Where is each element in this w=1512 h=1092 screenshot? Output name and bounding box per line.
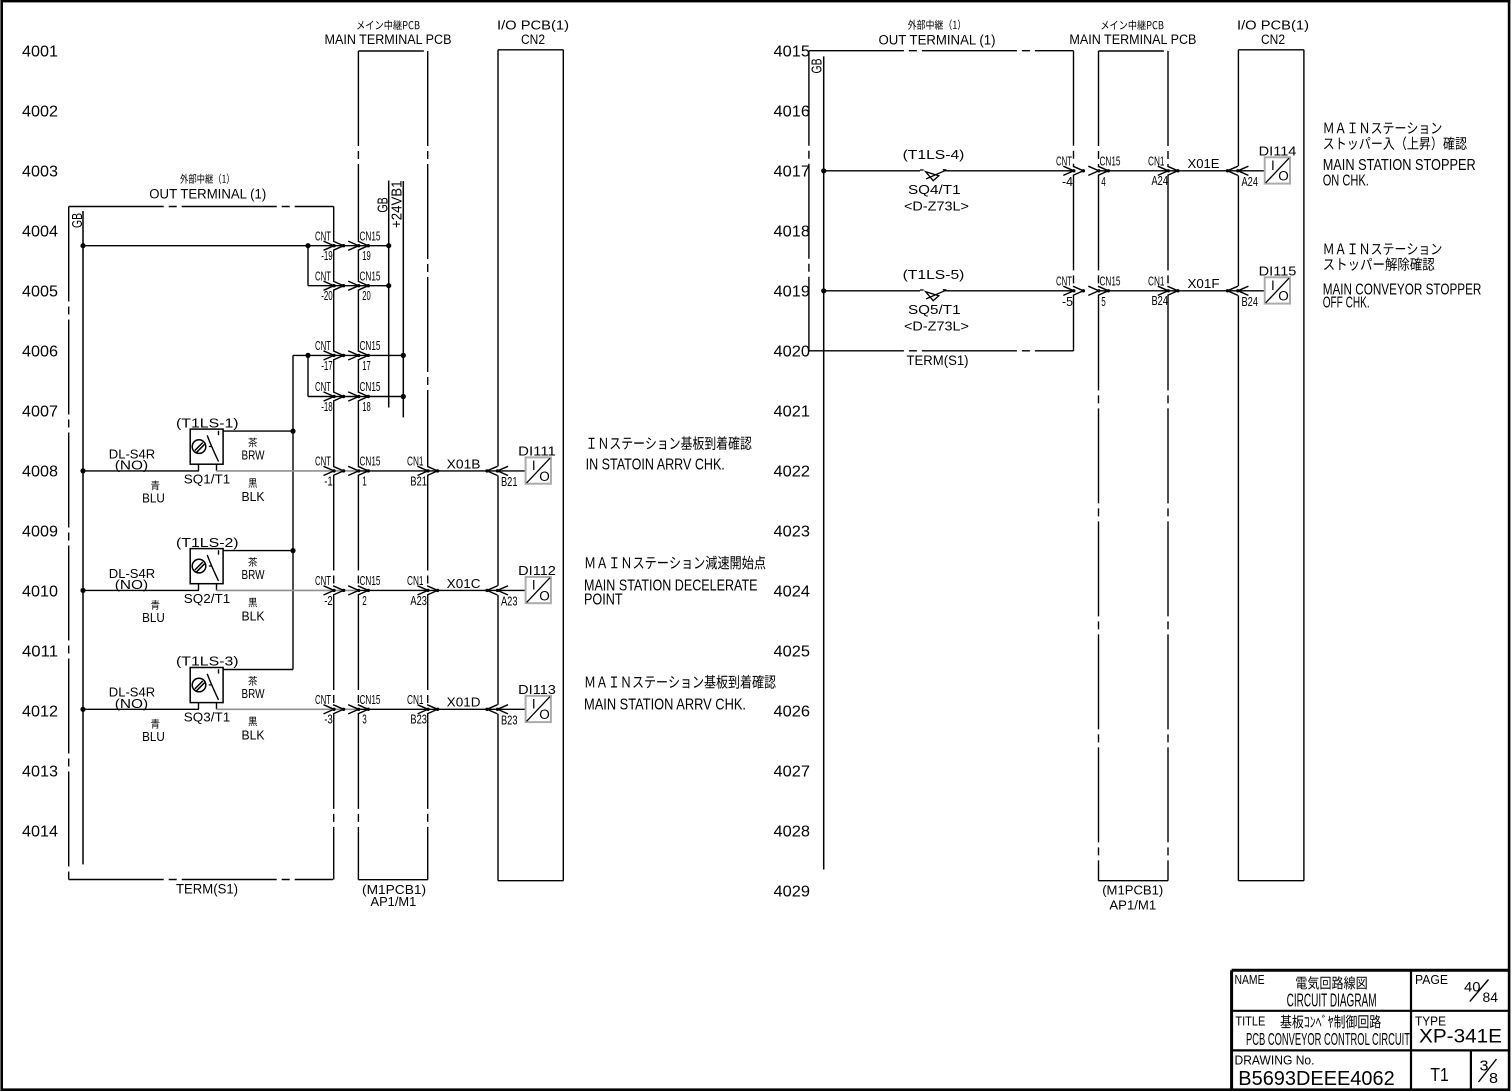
svg-text:DI112: DI112 [518, 563, 556, 578]
wire color label 青 BLU [142, 719, 165, 744]
svg-text:PAGE: PAGE [1415, 973, 1448, 987]
wire X01F CN1 to I/O PCB [1168, 276, 1238, 291]
connector CN15 18 [348, 380, 380, 414]
svg-text:-18: -18 [321, 400, 333, 414]
svg-text:(T1LS-3): (T1LS-3) [176, 654, 239, 669]
limit switch SQ5/T1 (T1LS-5) D-Z73L [903, 267, 969, 333]
svg-text:4: 4 [1101, 175, 1106, 189]
wire color label 茶 BRW [242, 438, 266, 463]
connector I/O PCB CN2 A23 [485, 586, 517, 609]
svg-text:CN15: CN15 [360, 380, 381, 394]
title block PAGE cell 40/84 [1415, 973, 1498, 1005]
wire CN15 2 to CN1 A23 [358, 589, 427, 591]
wire color label 黒 BLK [242, 598, 265, 624]
GB bus (right vertical) [809, 56, 826, 869]
wire CN15-20 (GB) [308, 283, 391, 288]
wire I/O PCB edge to DI115 [1238, 290, 1264, 292]
wire GB bus to switch SQ3/T1 (BLU side) [80, 707, 199, 712]
(M1PCB1) AP1/M1 label (right) [1102, 883, 1163, 913]
connector I/O PCB CN2 B24 [1226, 286, 1258, 309]
svg-text:CN2: CN2 [1261, 32, 1285, 47]
wire I/O PCB edge to DI112 [498, 589, 526, 591]
wire color label 青 BLU [142, 600, 165, 625]
svg-text:CN1: CN1 [1148, 275, 1165, 289]
svg-text:SQ1/T1: SQ1/T1 [184, 471, 230, 486]
connector I/O PCB CN2 B23 [485, 705, 517, 728]
svg-text:BLU: BLU [142, 490, 165, 505]
svg-text:<D-Z73L>: <D-Z73L> [904, 199, 969, 214]
svg-text:-3: -3 [324, 713, 333, 727]
svg-text:X01F: X01F [1188, 276, 1220, 291]
svg-text:T1: T1 [1430, 1065, 1448, 1085]
svg-text:4008: 4008 [22, 464, 58, 481]
connector CNT -18 [315, 380, 345, 414]
wire bracket CNT-19 to CNT-20 [307, 246, 309, 286]
OUT TERMINAL (1) box (left, dash-dot) [69, 207, 334, 880]
connector CN15 17 [348, 339, 380, 373]
svg-text:4019: 4019 [774, 284, 811, 301]
svg-text:CN15: CN15 [360, 455, 381, 469]
svg-text:(M1PCB1): (M1PCB1) [1102, 883, 1163, 898]
svg-text:4004: 4004 [22, 224, 58, 241]
svg-text:4005: 4005 [22, 284, 58, 301]
svg-text:4012: 4012 [22, 704, 58, 721]
wire X01E CN1 to I/O PCB [1168, 156, 1238, 171]
svg-text:4009: 4009 [22, 524, 58, 541]
wire CN15 1 to CN1 B21 [358, 470, 427, 472]
svg-text:4021: 4021 [774, 404, 811, 421]
title block sheet cell T1 3/8 [1430, 1059, 1498, 1087]
MAIN TERMINAL PCB header (right) [1069, 20, 1196, 47]
connector CNT -2 [315, 574, 345, 608]
svg-text:CNT: CNT [1056, 275, 1072, 289]
svg-text:A24: A24 [1242, 175, 1259, 189]
svg-text:18: 18 [362, 400, 371, 414]
connector CNT -1 [315, 455, 345, 489]
svg-text:AP1/M1: AP1/M1 [371, 894, 417, 909]
+24VB1 bus (x=403.3) [389, 181, 406, 418]
svg-text:BLK: BLK [242, 489, 265, 504]
I/O input module DI115 [1259, 263, 1297, 303]
svg-text:4015: 4015 [774, 44, 811, 61]
I/O input module DI114 [1259, 143, 1297, 183]
svg-text:B21: B21 [501, 475, 518, 489]
connector CN15 2 [348, 574, 380, 608]
svg-text:4010: 4010 [22, 584, 58, 601]
svg-text:17: 17 [362, 359, 371, 373]
svg-text:CNT: CNT [315, 339, 331, 353]
svg-text:A24: A24 [1152, 174, 1169, 188]
svg-text:(NO): (NO) [115, 696, 148, 711]
svg-text:4011: 4011 [22, 644, 58, 661]
connector CN1 A24 [1148, 155, 1180, 189]
svg-text:AP1/M1: AP1/M1 [1109, 898, 1156, 913]
svg-text:4016: 4016 [774, 104, 811, 121]
wire X01D CN1 to I/O PCB [428, 695, 498, 710]
svg-text:A23: A23 [410, 594, 427, 608]
svg-text:+24VB1: +24VB1 [389, 181, 406, 229]
wire color label 茶 BRW [242, 676, 266, 701]
svg-text:DI111: DI111 [518, 443, 556, 458]
I/O input module DI112 [518, 563, 556, 603]
svg-text:4018: 4018 [774, 224, 811, 241]
svg-text:CN1: CN1 [407, 574, 424, 588]
svg-text:-4: -4 [1062, 175, 1073, 189]
svg-text:CN1: CN1 [407, 455, 424, 469]
svg-text:X01D: X01D [447, 695, 481, 710]
svg-text:3: 3 [362, 713, 367, 727]
connector CNT -20 [315, 269, 345, 303]
svg-text:4020: 4020 [774, 344, 811, 361]
svg-text:DRAWING No.: DRAWING No. [1235, 1053, 1315, 1068]
connector CN1 B23 [407, 693, 439, 727]
svg-text:CNT: CNT [1056, 155, 1072, 169]
svg-text:8: 8 [1489, 1071, 1498, 1087]
svg-text:NAME: NAME [1235, 973, 1265, 987]
svg-text:SQ5/T1: SQ5/T1 [908, 302, 961, 317]
svg-text:GB: GB [69, 213, 86, 228]
OUT TERMINAL (1) box header (left) [149, 174, 266, 202]
svg-text:CN2: CN2 [521, 32, 545, 47]
svg-text:19: 19 [362, 249, 371, 263]
svg-text:TITLE: TITLE [1235, 1014, 1265, 1028]
wire color label 茶 BRW [242, 557, 266, 582]
svg-text:4027: 4027 [774, 764, 811, 781]
wire I/O PCB edge to DI111 [498, 470, 526, 472]
annotation for DI115 [1323, 243, 1482, 312]
wire switch SQ3/T1 upper contact to +24VB1 feed [223, 669, 293, 671]
connector CN15 1 [348, 455, 380, 489]
svg-text:4029: 4029 [774, 884, 811, 901]
svg-text:4013: 4013 [22, 764, 58, 781]
svg-text:CNT: CNT [315, 380, 331, 394]
I/O input module DI111 [518, 443, 556, 483]
svg-text:CNT: CNT [315, 693, 331, 707]
svg-text:X01C: X01C [447, 576, 481, 591]
connector CN1 B21 [407, 455, 439, 489]
I/O PCB CN2 header (right) [1237, 17, 1309, 47]
svg-text:GB: GB [809, 59, 826, 74]
svg-text:OFF CHK.: OFF CHK. [1323, 295, 1370, 312]
wire CN15 4 to CN1 A24 [1099, 170, 1169, 172]
limit switch SQ4/T1 (T1LS-4) D-Z73L [903, 147, 969, 213]
MAIN TERMINAL PCB box (right) [1099, 51, 1169, 881]
annotation for DI112 [584, 556, 765, 609]
svg-text:CNT: CNT [315, 574, 331, 588]
svg-text:(T1LS-4): (T1LS-4) [903, 147, 965, 162]
svg-text:4026: 4026 [774, 704, 811, 721]
svg-text:CN15: CN15 [360, 229, 381, 243]
svg-text:CN1: CN1 [1148, 155, 1165, 169]
wire GB bus to limit switch SQ5/T1 [821, 288, 920, 293]
connector CN1 A23 [407, 574, 439, 608]
svg-text:4003: 4003 [22, 164, 58, 181]
wire X01C CN1 to I/O PCB [428, 576, 498, 591]
annotation for DI111 [586, 436, 752, 473]
svg-text:BRW: BRW [242, 448, 266, 463]
wire color label 青 BLU [142, 481, 165, 506]
svg-text:20: 20 [362, 289, 371, 303]
svg-text:B5693DEEE4062: B5693DEEE4062 [1238, 1067, 1394, 1090]
svg-text:TERM(S1): TERM(S1) [907, 353, 969, 368]
svg-text:(NO): (NO) [115, 457, 148, 472]
wire switch SQ5/T1 to CNT -5 [944, 290, 1074, 292]
svg-text:MAIN TERMINAL PCB: MAIN TERMINAL PCB [325, 32, 452, 47]
I/O PCB CN2 header (left) [497, 17, 569, 47]
svg-text:B24: B24 [1152, 294, 1169, 308]
wire I/O PCB edge to DI114 [1238, 170, 1264, 172]
svg-text:X01E: X01E [1188, 156, 1220, 171]
svg-text:SQ2/T1: SQ2/T1 [184, 591, 230, 606]
OUT TERMINAL (1) box header (right) [879, 20, 996, 48]
svg-text:BLU: BLU [142, 610, 165, 625]
wire CN15 3 to CN1 B23 [358, 708, 427, 710]
svg-text:IN STATOIN ARRV CHK.: IN STATOIN ARRV CHK. [586, 457, 725, 474]
svg-text:BLK: BLK [242, 728, 265, 743]
annotation for DI114 [1323, 122, 1476, 189]
svg-text:CN15: CN15 [360, 574, 381, 588]
limit switch SQ2/T1 (T1LS-2) DL-S4R [109, 535, 239, 606]
svg-text:I/O PCB(1): I/O PCB(1) [497, 17, 569, 32]
connector I/O PCB CN2 A24 [1226, 166, 1258, 189]
wire CN15-18 (+24VB1) [308, 394, 406, 399]
svg-text:ON CHK.: ON CHK. [1323, 173, 1369, 190]
connector CNT -19 [315, 229, 345, 263]
svg-text:4014: 4014 [22, 824, 58, 841]
connector CN15 3 [348, 693, 380, 727]
wire switch SQ2/T1 output (BLK, gray) to CN15 [217, 589, 359, 591]
wire color label 黒 BLK [242, 717, 265, 743]
wire CN15-19 (GB) row 4004 [80, 243, 391, 248]
svg-text:1: 1 [362, 474, 367, 488]
svg-text:MAIN STATION ARRV CHK.: MAIN STATION ARRV CHK. [584, 697, 746, 714]
wire switch SQ3/T1 output (BLK, gray) to CN15 [217, 708, 359, 710]
title block frame [1232, 970, 1510, 1090]
wire +24VB1 feed to limit switches (vertical x=293) [290, 355, 295, 669]
(M1PCB1) AP1/M1 label (left) [362, 882, 426, 909]
svg-text:BLK: BLK [242, 609, 265, 624]
svg-text:4017: 4017 [774, 164, 811, 181]
svg-text:OUT TERMINAL (1): OUT TERMINAL (1) [149, 187, 266, 202]
wire GB bus to limit switch SQ4/T1 [821, 168, 920, 173]
svg-text:BRW: BRW [242, 567, 266, 582]
svg-text:84: 84 [1483, 989, 1499, 1005]
svg-text:CN15: CN15 [360, 339, 381, 353]
wire I/O PCB edge to DI113 [498, 708, 526, 710]
svg-text:SQ4/T1: SQ4/T1 [908, 182, 961, 197]
MAIN TERMINAL PCB header (left) [325, 20, 452, 47]
svg-text:4002: 4002 [22, 104, 58, 121]
GB bus (left vertical) [69, 211, 86, 864]
svg-text:<D-Z73L>: <D-Z73L> [904, 319, 969, 334]
wire switch SQ4/T1 to CNT -4 [944, 170, 1074, 172]
svg-text:DI115: DI115 [1259, 263, 1297, 278]
svg-text:-2: -2 [324, 594, 333, 608]
title block TYPE cell XP-341E [1415, 1014, 1502, 1047]
connector I/O PCB CN2 B21 [485, 466, 517, 489]
svg-text:B23: B23 [410, 713, 427, 727]
svg-text:CIRCUIT DIAGRAM: CIRCUIT DIAGRAM [1287, 990, 1377, 1010]
svg-text:CNT: CNT [315, 229, 331, 243]
svg-text:2: 2 [362, 594, 367, 608]
connector CN15 5 [1088, 275, 1120, 309]
connector CN15 4 [1088, 155, 1120, 189]
wire switch SQ2/T1 upper contact to +24VB1 feed [223, 550, 293, 552]
annotation for DI113 [584, 675, 776, 714]
connector CNT -3 [315, 693, 345, 727]
svg-text:4024: 4024 [774, 584, 811, 601]
title block TITLE row [1235, 1014, 1410, 1049]
svg-text:XP-341E: XP-341E [1419, 1027, 1502, 1048]
svg-text:OUT TERMINAL (1): OUT TERMINAL (1) [879, 33, 996, 48]
svg-text:4025: 4025 [774, 644, 811, 661]
wire switch SQ1/T1 upper contact to +24VB1 feed [223, 430, 293, 432]
svg-text:B21: B21 [410, 474, 427, 488]
svg-text:PCB CONVEYOR CONTROL CIRCUIT: PCB CONVEYOR CONTROL CIRCUIT [1246, 1029, 1410, 1049]
connector CNT -17 [315, 339, 345, 373]
svg-text:CN15: CN15 [360, 269, 381, 283]
svg-text:(T1LS-2): (T1LS-2) [176, 535, 239, 550]
MAIN TERMINAL PCB box (left) [358, 51, 427, 880]
svg-text:4022: 4022 [774, 464, 811, 481]
svg-text:-17: -17 [321, 359, 333, 373]
wire bracket CNT-17 to CNT-18 [307, 355, 309, 396]
connector CN1 B24 [1148, 275, 1180, 309]
svg-text:4023: 4023 [774, 524, 811, 541]
title block DRAWING No. row [1235, 1053, 1395, 1090]
svg-text:(NO): (NO) [115, 577, 148, 592]
OUT TERMINAL (1) box (right, dash-dot) [809, 51, 1074, 351]
svg-text:X01B: X01B [447, 456, 481, 471]
svg-text:5: 5 [1101, 295, 1106, 309]
wire switch SQ1/T1 output (BLK, gray) to CN15 [217, 470, 359, 472]
title block NAME row [1235, 973, 1377, 1010]
svg-text:-5: -5 [1062, 295, 1073, 309]
limit switch SQ3/T1 (T1LS-3) DL-S4R [109, 654, 239, 725]
svg-text:4007: 4007 [22, 404, 58, 421]
svg-text:MAIN TERMINAL PCB: MAIN TERMINAL PCB [1069, 32, 1196, 47]
wire GB bus to switch SQ1/T1 (BLU side) [80, 468, 199, 473]
limit switch SQ1/T1 (T1LS-1) DL-S4R [109, 415, 239, 486]
wire GB bus to switch SQ2/T1 (BLU side) [80, 588, 199, 593]
svg-text:4001: 4001 [22, 44, 58, 61]
svg-text:CN15: CN15 [1100, 155, 1121, 169]
svg-text:BLU: BLU [142, 729, 165, 744]
svg-text:I/O PCB(1): I/O PCB(1) [1237, 17, 1309, 32]
I/O PCB CN2 box (left) [498, 50, 563, 881]
connector CNT -4 [1056, 155, 1085, 189]
svg-text:SQ3/T1: SQ3/T1 [184, 710, 230, 725]
wire X01B CN1 to I/O PCB [428, 456, 498, 471]
svg-text:B24: B24 [1242, 295, 1259, 309]
I/O PCB CN2 box (right) [1238, 50, 1304, 881]
svg-text:BRW: BRW [242, 686, 266, 701]
svg-text:(T1LS-5): (T1LS-5) [903, 267, 965, 282]
svg-text:CNT: CNT [315, 455, 331, 469]
svg-text:-20: -20 [321, 289, 333, 303]
svg-text:CN15: CN15 [1100, 275, 1121, 289]
svg-text:CN1: CN1 [407, 693, 424, 707]
svg-text:-1: -1 [324, 474, 333, 488]
connector CN15 20 [348, 269, 380, 303]
svg-text:TERM(S1): TERM(S1) [176, 882, 238, 897]
connector CNT -5 [1056, 275, 1085, 309]
svg-text:3: 3 [1480, 1059, 1489, 1075]
svg-text:-19: -19 [321, 249, 333, 263]
svg-text:A23: A23 [501, 595, 518, 609]
svg-text:CN15: CN15 [360, 693, 381, 707]
svg-text:DI114: DI114 [1259, 143, 1297, 158]
svg-text:(T1LS-1): (T1LS-1) [176, 415, 239, 430]
svg-text:POINT: POINT [584, 592, 623, 609]
wire color label 黒 BLK [242, 478, 265, 504]
svg-text:DI113: DI113 [518, 682, 556, 697]
I/O input module DI113 [518, 682, 556, 722]
wire CN15-17 (+24VB1) row 4006 [293, 353, 406, 358]
wire CN15 5 to CN1 B24 [1099, 290, 1169, 292]
svg-text:4028: 4028 [774, 824, 811, 841]
GB bus (distribution, x=388.7) [374, 181, 391, 408]
svg-text:CNT: CNT [315, 269, 331, 283]
svg-text:B23: B23 [501, 714, 518, 728]
connector CN15 19 [348, 229, 380, 263]
svg-text:4006: 4006 [22, 344, 58, 361]
